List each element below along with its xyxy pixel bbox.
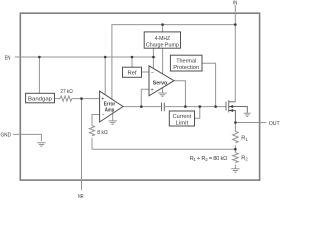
svg-text:GND: GND — [1, 133, 12, 139]
wire R2 to ground — [234, 165, 236, 169]
block Thermal Protection — [170, 55, 202, 71]
svg-text:Servo: Servo — [153, 81, 168, 87]
M1 drain stub — [229, 101, 236, 103]
svg-text:R2: R2 — [241, 155, 248, 161]
wire current limit to gate line — [195, 107, 200, 119]
capacitor plates — [162, 103, 165, 112]
resistor R2 — [233, 153, 239, 163]
svg-text:Bandgap: Bandgap — [28, 96, 52, 102]
wire EN to Ref — [131, 57, 133, 67]
svg-text:27 kΩ: 27 kΩ — [60, 89, 72, 95]
resistor R1 — [233, 131, 239, 143]
wire error amp - input — [92, 115, 100, 126]
svg-text:+: + — [151, 87, 154, 93]
svg-text:+: + — [101, 97, 104, 103]
wire feedback from divider — [92, 148, 235, 150]
ground symbol M1 body — [244, 113, 251, 116]
wire charge pump output to servo supply — [162, 48, 164, 74]
node servo output junction — [184, 105, 187, 108]
svg-text:Protection: Protection — [173, 65, 199, 71]
ground symbol servo — [158, 88, 166, 97]
node error amp output junction — [140, 105, 143, 108]
wire 27k to error amp + input — [72, 98, 100, 100]
svg-text:Ref: Ref — [127, 70, 136, 76]
ground symbol error amp — [109, 114, 117, 125]
M1 channel bar — [228, 100, 230, 112]
M1 source arrow — [229, 109, 233, 112]
op-amp error amplifier — [100, 91, 123, 122]
wire error amp output — [123, 106, 161, 108]
svg-text:OUT: OUT — [269, 121, 280, 127]
node EN/ref junction — [131, 56, 134, 59]
svg-text:−: − — [102, 113, 105, 119]
svg-text:8 kΩ: 8 kΩ — [97, 130, 108, 136]
ground symbol GND pin — [37, 143, 45, 146]
wire IN vertical — [234, 5, 236, 102]
node EN/bandgap junction — [38, 56, 41, 59]
svg-text:Limit: Limit — [176, 120, 189, 126]
wire GND pin — [13, 134, 41, 141]
M1 body arrow — [229, 105, 233, 108]
wire gate line — [164, 106, 226, 108]
resistor 27 kOhm — [60, 96, 72, 101]
outer chip boundary — [20, 13, 259, 180]
wire 8k down to feedback — [91, 138, 93, 149]
svg-text:Thermal: Thermal — [176, 58, 196, 64]
ground symbol R2 — [231, 169, 239, 172]
svg-text:R1: R1 — [241, 136, 248, 142]
block Ref — [123, 67, 142, 77]
node 27k/NR junction — [80, 97, 83, 100]
svg-text:NR: NR — [78, 194, 84, 199]
svg-text:EN: EN — [5, 55, 11, 61]
svg-text:−: − — [151, 70, 154, 76]
node IN branch junction — [234, 23, 237, 26]
resistor 8 kOhm — [89, 126, 94, 136]
wire R1 to node — [234, 145, 236, 153]
node EN/error amp junction — [104, 56, 107, 59]
svg-text:IN: IN — [233, 1, 237, 7]
svg-text:Current: Current — [173, 114, 192, 120]
wire Ref to servo - input — [142, 71, 150, 73]
transistor M1 pass FET — [226, 100, 251, 122]
node thermal junction — [214, 105, 217, 108]
wire IN to charge pump top — [162, 25, 164, 32]
node current limit junction — [199, 105, 202, 108]
svg-text:Amp: Amp — [105, 107, 115, 113]
node feedback divider junction — [234, 148, 237, 151]
wire IN top branch to error amp supply — [112, 25, 235, 100]
node OUT junction — [234, 121, 237, 124]
M1 body stub — [229, 107, 248, 113]
wire EN to Bandgap — [38, 57, 40, 93]
svg-text:Charge Pump: Charge Pump — [146, 42, 179, 48]
M1 source stub — [229, 111, 236, 123]
node charge pump top junction — [161, 23, 164, 26]
svg-text:R1 + R2 = 80 kΩ: R1 + R2 = 80 kΩ — [190, 156, 228, 162]
wire OUT line — [235, 122, 266, 124]
svg-text:4-MHZ: 4-MHZ — [155, 36, 171, 42]
op-amp servo amplifier — [149, 66, 174, 96]
block Current Limit — [169, 111, 194, 126]
node EN/charge pump junction — [152, 56, 155, 59]
wire servo output — [174, 81, 185, 107]
wire NR vertical — [81, 99, 83, 191]
wire thermal protection to gate line — [202, 63, 216, 106]
wire Bandgap output — [55, 98, 61, 100]
block 4-MHZ Charge Pump — [144, 32, 180, 48]
M1 gate bar — [225, 102, 227, 111]
wire EN horizontal — [15, 56, 156, 58]
wire error amp output to servo + input — [141, 89, 149, 106]
block Bandgap — [26, 93, 55, 103]
wire OUT node to R1 — [234, 123, 236, 132]
wire EN to error amp enable — [104, 57, 106, 95]
wire EN / charge pump to servo enable — [152, 48, 154, 68]
